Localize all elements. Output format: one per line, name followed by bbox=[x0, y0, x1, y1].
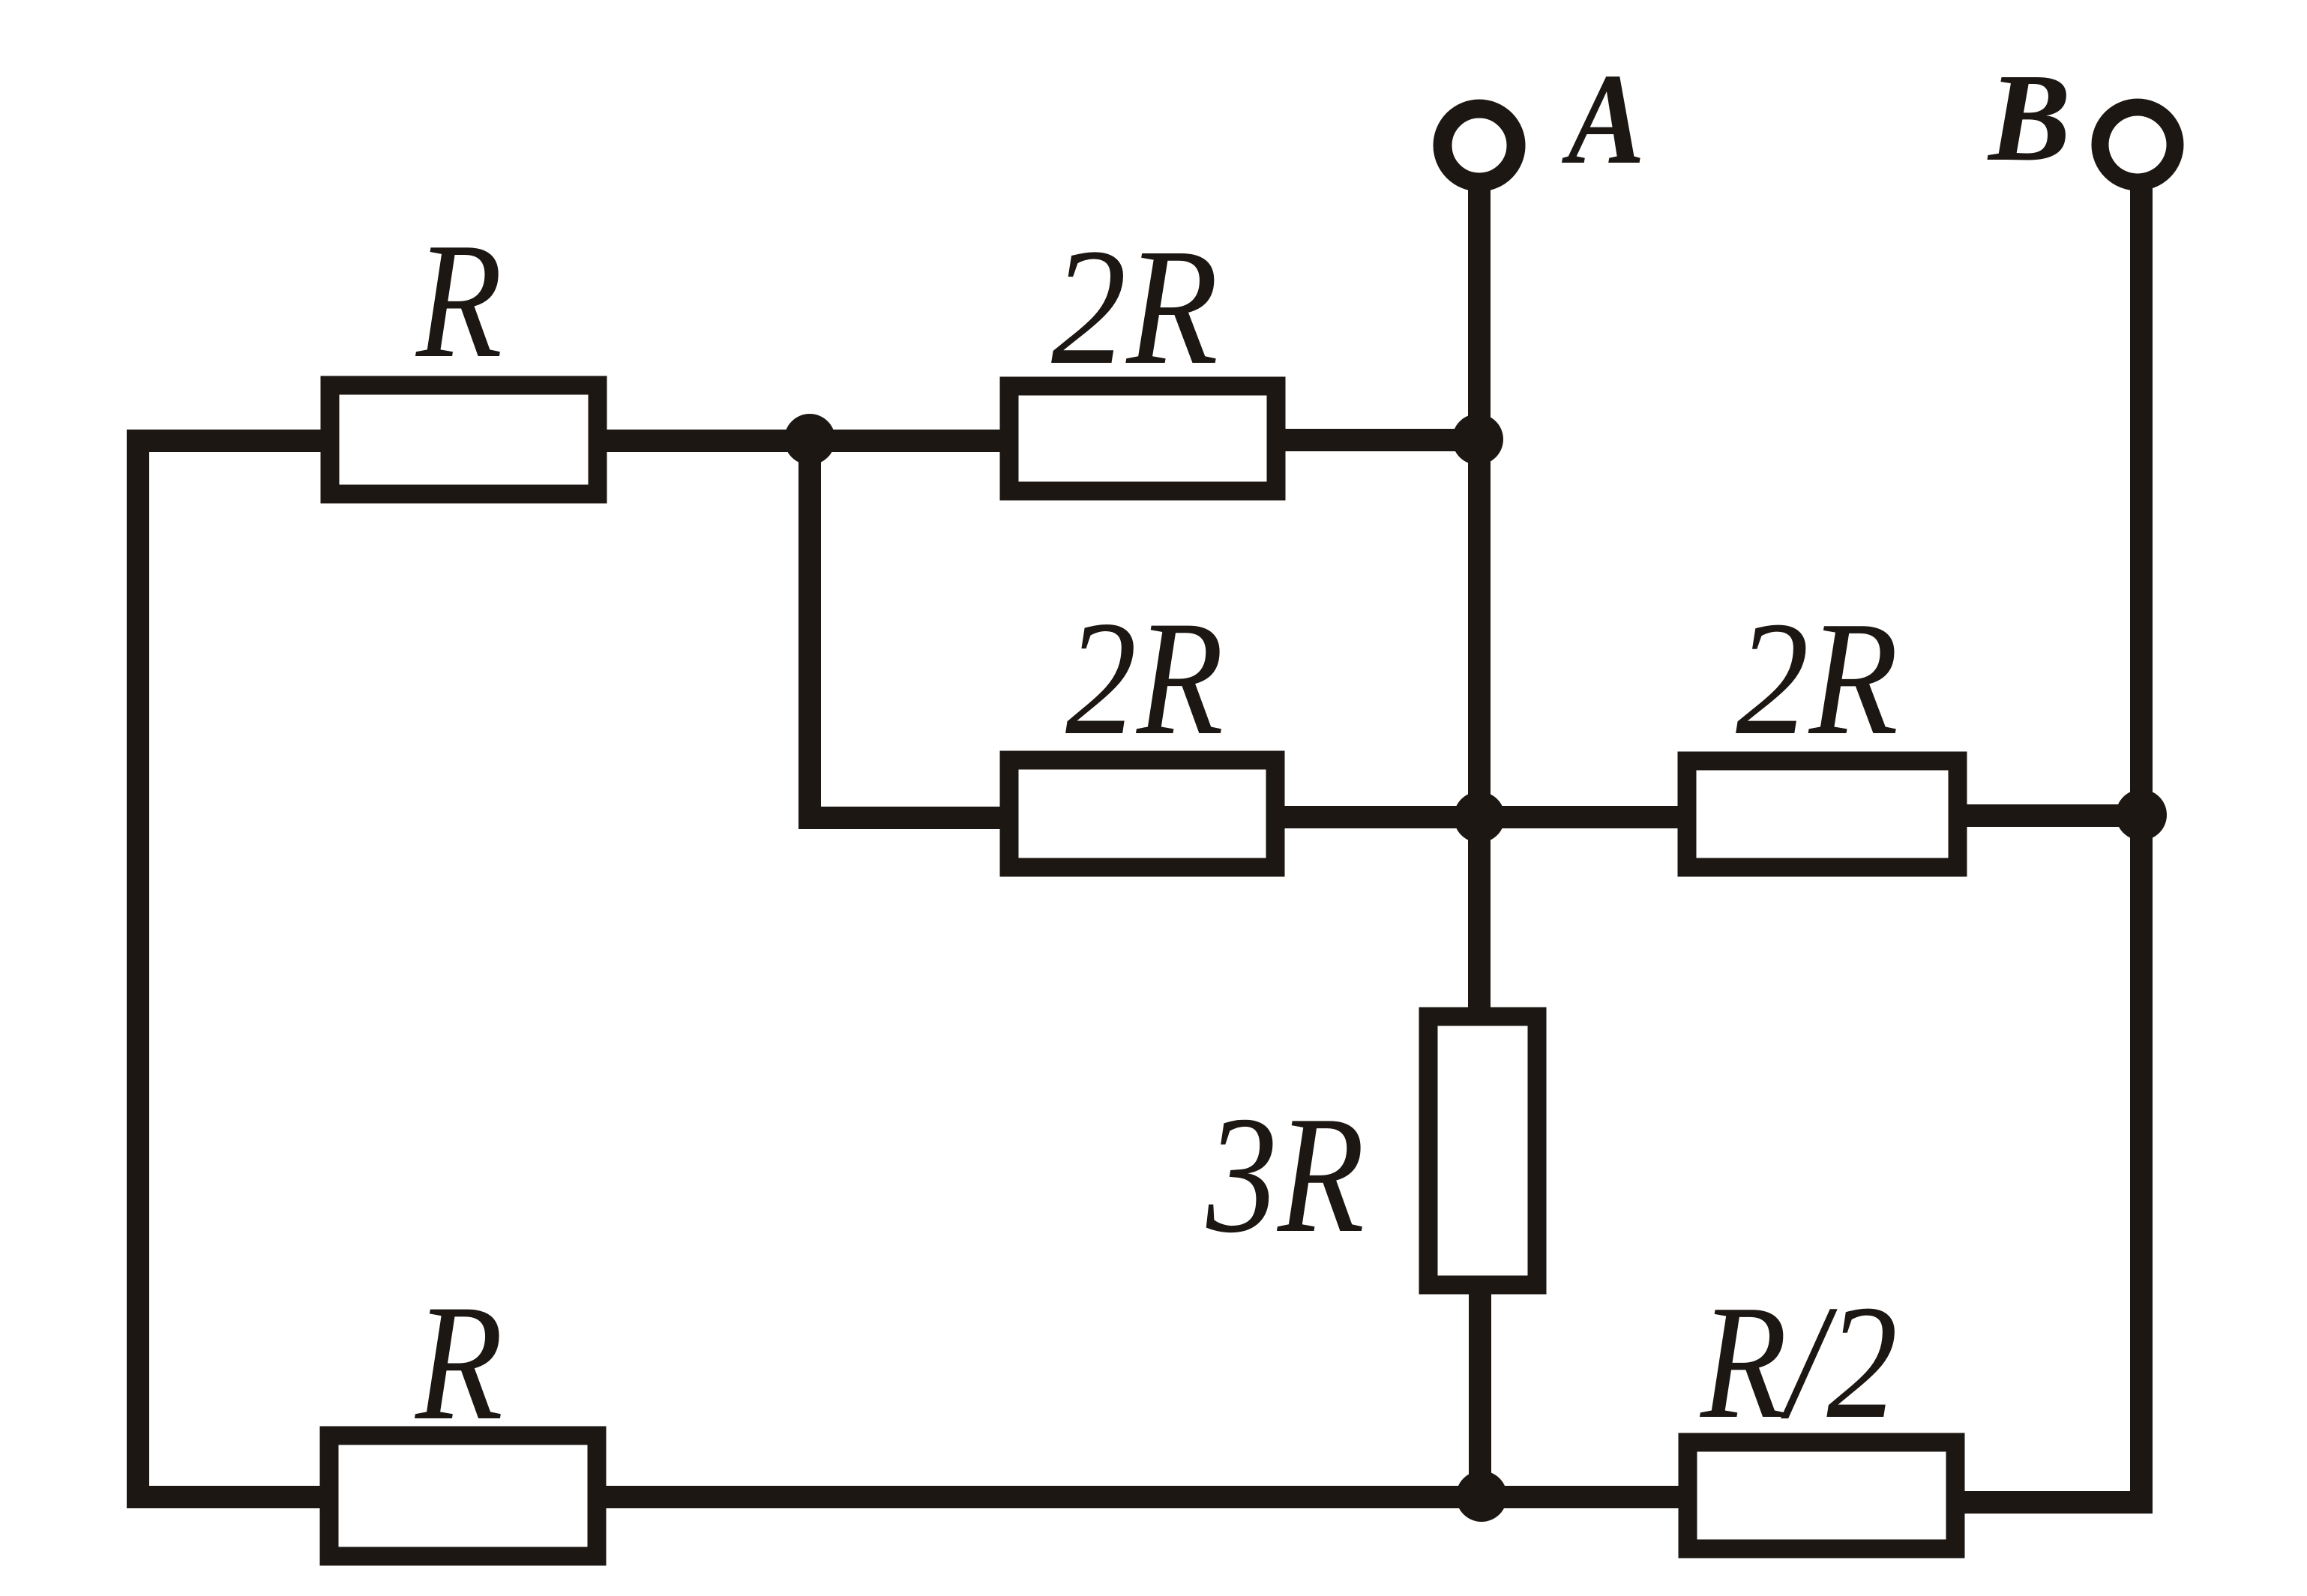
resistor R6 (3R, vertical) bbox=[1428, 1017, 1537, 1285]
resistor R2 (R, bottom) bbox=[329, 1436, 597, 1556]
resistor R3 (2R, top) bbox=[1009, 386, 1276, 491]
resistor R1 (R, top left) bbox=[330, 385, 598, 494]
terminal A ring bbox=[1443, 109, 1516, 182]
svg-text:B: B bbox=[1987, 48, 2071, 187]
svg-text:2R: 2R bbox=[1051, 214, 1218, 400]
terminal B ring bbox=[2100, 107, 2175, 182]
svg-text:R/2: R/2 bbox=[1699, 1272, 1898, 1453]
wire: 2R top right lead to node A1 bbox=[1279, 429, 1485, 451]
wire: terminal B stem down and R/2 right lead bbox=[1958, 184, 2141, 1502]
node A2 junction dot (A stem / middle rail) bbox=[1454, 792, 1505, 843]
node A1 junction dot (A stem / top rail) bbox=[1452, 414, 1503, 465]
svg-text:R: R bbox=[414, 1271, 503, 1455]
svg-text:3R: 3R bbox=[1206, 1082, 1365, 1268]
wire: 3R bottom lead to bottom rail node bbox=[1469, 1288, 1491, 1497]
wire: R right lead to node X to 2R top left lead bbox=[601, 430, 1014, 452]
wire: bottom rail from resistor R2 right lead to node C and R/2 left lead bbox=[592, 1486, 1689, 1508]
wire: node X vertical drop and middle rail to 2R middle left lead bbox=[810, 435, 1014, 818]
svg-text:2R: 2R bbox=[1065, 588, 1224, 769]
wire: 2R right lead to node B1 on terminal B stem bbox=[1962, 804, 2143, 827]
node B1 junction dot (B stem / middle rail) bbox=[2116, 789, 2167, 840]
wire: top rail from resistor R left lead, left rail down, bottom rail into resistor R2 bbox=[138, 441, 334, 1497]
svg-text:2R: 2R bbox=[1736, 588, 1898, 769]
svg-text:A: A bbox=[1562, 46, 1645, 191]
node C junction dot (3R lead / bottom rail) bbox=[1456, 1471, 1507, 1522]
resistor R7 (R/2, bottom right) bbox=[1688, 1442, 1955, 1549]
node X junction dot bbox=[784, 414, 835, 465]
svg-text:R: R bbox=[415, 208, 502, 392]
resistor R5 (2R, right) bbox=[1687, 761, 1958, 867]
wire: terminal A stem down through node A1, node A2 into 3R top bbox=[1468, 184, 1491, 1014]
resistor R4 (2R, middle) bbox=[1009, 760, 1275, 867]
wire: middle rail 2R middle right lead to 2R right left lead bbox=[1280, 806, 1691, 828]
